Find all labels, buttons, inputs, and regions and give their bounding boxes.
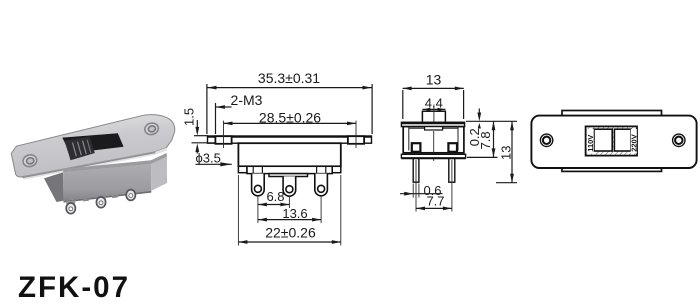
photo: terminal lug left <box>66 203 75 214</box>
front view: lower base plate <box>247 166 332 173</box>
front view: switch body <box>238 143 340 166</box>
front view: terminal 2 (middle) <box>283 176 296 196</box>
side view: body <box>403 127 464 153</box>
top view: 110V label <box>587 129 594 154</box>
svg-text:4.4: 4.4 <box>425 96 443 111</box>
photo: body top shadow strip under plate <box>63 153 167 172</box>
front view: mounting flange plate <box>208 136 372 143</box>
side view: terminal leg left <box>413 159 419 183</box>
svg-text:35.3±0.31: 35.3±0.31 <box>258 70 320 86</box>
photo: body right side face <box>151 157 167 191</box>
photo: mounting plate top face <box>11 115 175 177</box>
side view: internal contact right <box>448 143 457 152</box>
photo: terminal stub middle <box>97 197 107 202</box>
side view: knob shaft below flange <box>425 127 443 130</box>
front view: right M3 hole section <box>348 136 364 144</box>
photo: right mounting hole (countersunk) <box>144 122 160 136</box>
svg-text:22±0.26: 22±0.26 <box>265 225 316 241</box>
photo: slider window (black opening) <box>62 133 123 153</box>
svg-text:13: 13 <box>498 146 513 160</box>
photo: terminal lug middle <box>96 197 105 208</box>
side view: body inner wall lines <box>409 127 458 150</box>
side view: terminal leg right <box>449 159 455 183</box>
front view: terminal 1 (left) <box>252 174 265 196</box>
svg-text:7.8: 7.8 <box>478 131 493 149</box>
photo: left mounting hole (countersunk) <box>22 153 38 168</box>
photo: terminal lug right <box>126 190 135 201</box>
svg-text:110V: 110V <box>586 135 595 152</box>
side view: mounting flange (edge-on) <box>401 122 464 126</box>
top view: mounting plate (rounded) <box>531 116 696 168</box>
top view: left mounting hole <box>540 134 552 146</box>
svg-text:ϕ3.5: ϕ3.5 <box>196 150 221 165</box>
svg-text:2-M3: 2-M3 <box>231 92 263 108</box>
front view: left terminal pass-through slot <box>252 166 254 173</box>
front view: bottom step right <box>332 166 341 172</box>
side view: base plate <box>401 154 465 158</box>
photo: terminal stub right <box>126 189 136 194</box>
side view: knob centerline <box>433 105 435 134</box>
side view: slider knob <box>422 111 445 123</box>
top view: switch body outline (tabs) <box>562 111 662 172</box>
top view: 220V label <box>631 129 637 154</box>
front view: left hole centerline <box>223 121 225 148</box>
svg-text:6.8: 6.8 <box>266 189 284 204</box>
photo: small bump on body bottom left <box>83 198 89 201</box>
photo: plate front edge bright strip <box>22 148 168 180</box>
front view: right terminal pass-through slot <box>316 166 318 173</box>
photo: body front face <box>63 164 151 201</box>
svg-text:ZFK-07: ZFK-07 <box>18 271 130 304</box>
svg-text:13.6: 13.6 <box>282 206 307 221</box>
side view: body centerline <box>433 131 435 161</box>
front view: terminal 3 (right) <box>315 174 328 196</box>
svg-text:220V: 220V <box>630 134 639 152</box>
svg-text:13: 13 <box>426 72 442 88</box>
photo: body bottom edge <box>64 191 152 203</box>
side view: internal contact left <box>412 143 421 152</box>
photo: body left dark side face <box>44 172 64 202</box>
front view: left M3 hole section <box>215 136 231 144</box>
svg-text:1.5: 1.5 <box>182 108 197 126</box>
photo: slider knob <box>64 137 94 161</box>
svg-text:7.7: 7.7 <box>426 194 444 209</box>
photo: small bump on body bottom right <box>112 195 118 198</box>
front view: middle base protrusion <box>269 174 308 177</box>
front view: bottom step left <box>238 166 247 172</box>
top view: slider position square 2 <box>614 129 631 151</box>
top view: slider position square 1 <box>594 129 612 151</box>
top view: right mounting hole <box>673 134 685 146</box>
front view: right hole centerline <box>355 121 357 148</box>
photo: terminal stub left <box>66 200 76 205</box>
